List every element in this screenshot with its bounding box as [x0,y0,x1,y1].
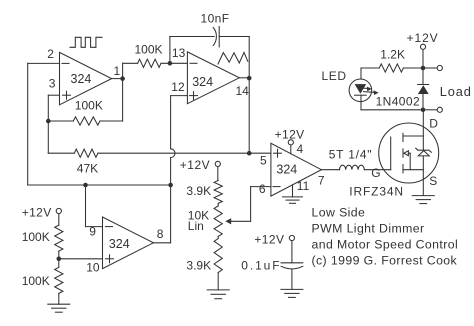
resistor 100K positive feedback U1a [48,79,122,126]
wire load top terminal [423,67,437,69]
wire 1.2K to LED [360,68,362,79]
svg-text:and Motor Speed Control: and Motor Speed Control [312,237,459,251]
resistor 100K divider upper [55,225,63,251]
svg-text:100K: 100K [135,42,163,56]
wire U1a output [112,63,138,78]
resistor 47K triangle to U1a pin3 [48,149,249,157]
terminal load top [437,65,442,70]
svg-text:+12V: +12V [407,31,439,45]
wire U1a pin 3 [48,94,59,96]
svg-text:0.1uF: 0.1uF [241,259,281,273]
resistor 1.2K LED [361,64,423,72]
svg-text:324: 324 [276,162,297,176]
svg-text:+12V: +12V [275,127,305,141]
resistor 100K divider lower [55,267,63,293]
wire triangle output vertical [248,78,250,153]
wire U1d pin 5 [249,152,271,154]
wire C1 left branch [170,37,214,64]
ground U1d pin 11 [283,185,303,204]
triangle wave symbol [218,52,248,64]
op-amp U1d (324) [271,143,322,196]
svg-text:5T 1/4": 5T 1/4" [329,148,373,162]
svg-text:S: S [429,174,437,188]
pot wiper arrow [225,218,231,224]
power +12V divider terminal [56,208,61,225]
svg-text:324: 324 [192,75,213,89]
wire 3.9K to pot [217,203,219,206]
svg-text:PWM Light Dimmer: PWM Light Dimmer [312,222,425,236]
node junction pin9 feedback / Vref branch [83,183,88,188]
node junction pin13 / C1 [168,61,173,66]
svg-text:11: 11 [297,179,310,193]
svg-text:3: 3 [49,77,56,91]
wire drain vertical [422,110,424,150]
wire Vref main vertical with hop [171,96,175,243]
svg-text:12: 12 [171,80,185,94]
svg-text:+12V: +12V [22,206,52,220]
node junction drain / LED / load bottom [421,108,426,113]
svg-text:D: D [429,116,438,130]
node U1b output junction pin 14 [247,76,252,81]
LED light arrows [362,87,379,95]
wire divider mid [58,251,60,267]
resistor 100K U1a out to U1b in [138,59,188,67]
ground decoupling [281,288,303,290]
svg-text:3.9K: 3.9K [186,184,211,198]
wire 3.9K to ground [217,273,219,290]
potentiometer 10K Lin [214,206,222,237]
node junction Vref branch [168,183,173,188]
svg-text:13: 13 [172,46,186,60]
svg-text:14: 14 [236,84,250,98]
svg-text:8: 8 [157,227,164,241]
wire wiper to U1d pin6 [230,187,271,222]
wire U1c feedback pin9 [86,185,103,227]
wire U1d output pin 7 [321,169,339,171]
svg-text:6: 6 [259,182,266,196]
svg-text:10nF: 10nF [201,11,230,25]
power +12V pot terminal [215,161,220,180]
svg-text:Load: Load [440,84,472,99]
svg-text:1.2K: 1.2K [380,47,405,61]
svg-text:+12V: +12V [180,158,210,172]
svg-text:324: 324 [71,72,92,86]
title text block [312,205,459,267]
resistor 3.9K lower [214,239,222,273]
svg-text:2: 2 [47,47,54,61]
svg-text:3.9K: 3.9K [186,258,211,272]
wire Vref left vertical [27,63,29,185]
node junction +12V / 1.2K / load top [421,66,426,71]
svg-text:10: 10 [86,260,100,274]
svg-text:(c) 1999 G. Forrest Cook: (c) 1999 G. Forrest Cook [312,253,458,267]
node junction 47K / pin5 [247,151,252,156]
svg-text:4: 4 [297,142,304,156]
svg-text:LED: LED [322,69,347,83]
terminal load bottom [437,107,442,112]
svg-text:7: 7 [318,173,325,187]
power +12V top right terminal [420,44,425,68]
svg-text:G: G [371,166,380,180]
svg-text:47K: 47K [77,162,98,176]
op-amp U1b (324) [187,52,239,104]
wire pot to 3.9K [217,236,219,238]
ground divider [48,303,70,305]
op-amp U1a (324) [60,52,112,104]
svg-text:Low Side: Low Side [312,205,366,219]
wire U1b pin 12 [171,95,188,97]
wire U1c output pin 8 [153,242,170,244]
diode D1 1N4002 [418,68,429,110]
svg-text:+12V: +12V [254,232,284,246]
power +12V U1d pin 4 [288,140,293,154]
wire source vertical [422,156,424,196]
svg-text:1: 1 [114,64,121,78]
wire LED cathode down [361,95,423,110]
wire U1c pin 10 [59,258,103,260]
svg-text:324: 324 [109,237,130,251]
op-amp U1c (324) [103,217,154,269]
wire C1 right branch to pin 14 node [219,37,249,79]
wire pin3 vertical [47,95,49,153]
transistor Q1 IRFZ34N MOSFET [379,123,439,183]
svg-text:1N4002: 1N4002 [376,95,420,109]
svg-text:IRFZ34N: IRFZ34N [349,185,404,199]
svg-text:100K: 100K [22,274,50,288]
resistor 3.9K upper [214,180,222,203]
node divider junction [57,257,62,262]
capacitor C1 10nF [213,27,219,47]
svg-text:100K: 100K [75,98,103,112]
ground MOSFET source [412,195,434,197]
wire U1b output [239,77,249,79]
node junction pin3 / feedback R [46,119,51,124]
capacitor C2 0.1uF [281,263,303,290]
svg-text:Lin: Lin [188,219,204,233]
wire load bottom terminal [423,109,437,111]
power +12V decoupling terminal [289,235,294,262]
svg-text:100K: 100K [22,230,50,244]
node U1a output junction [120,76,125,81]
wire inductor to gate [364,169,390,171]
inductor L1 5 turns [340,165,365,170]
svg-text:5: 5 [260,153,267,167]
LED D2 indicator [349,79,372,102]
ground pot chain [207,289,229,291]
wire Vref bottom branch to junction [28,184,171,186]
square wave symbol [70,37,102,47]
wire divider to ground [58,293,60,304]
wire U1a pin 2 [28,62,60,64]
